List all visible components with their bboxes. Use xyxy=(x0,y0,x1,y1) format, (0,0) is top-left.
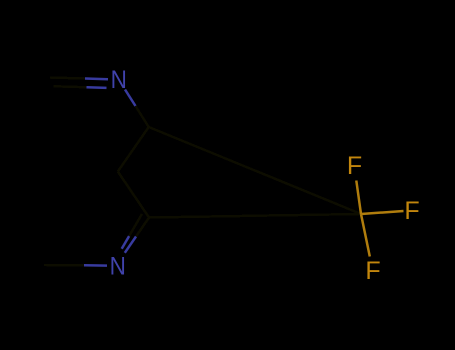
wire V4-C long bond xyxy=(149,214,361,218)
wire C1=N1 double bond nitrogen half (blue) xyxy=(85,79,108,88)
svg-text:N: N xyxy=(110,252,126,280)
svg-text:F: F xyxy=(365,257,380,285)
svg-text:F: F xyxy=(347,152,362,180)
wire C-F2 bond xyxy=(361,211,404,214)
wire C-F1 bond xyxy=(356,181,361,215)
wire N1-V2 single bond olive half xyxy=(136,106,149,127)
wire V3-V4 bond xyxy=(118,172,149,218)
wire V2-V3 bond xyxy=(118,127,149,172)
wire N1-V2 single bond blue half xyxy=(125,90,136,107)
wire C-F3 bond xyxy=(361,214,370,257)
svg-text:F: F xyxy=(404,197,419,225)
wire V4=N2 double bond olive half xyxy=(129,214,149,237)
wire N2-C5 single bond blue half xyxy=(84,264,107,267)
wire C1=N1 double bond carbon half (olive) xyxy=(50,78,87,88)
wire N2-C5 single bond olive half xyxy=(44,264,84,267)
wire V4=N2 double bond blue half xyxy=(122,236,136,253)
wire V2-C long bond xyxy=(149,127,361,214)
